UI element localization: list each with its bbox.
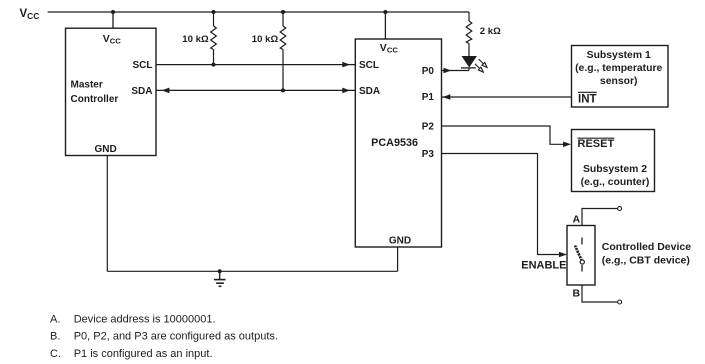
svg-text:C.: C. — [50, 348, 61, 360]
wire VCC rail — [48, 11, 469, 13]
PCA9536 pin P3 label — [422, 149, 435, 160]
wire terminal A — [582, 209, 618, 226]
svg-text:VCC: VCC — [103, 33, 122, 46]
ENABLE net label — [521, 260, 566, 272]
svg-text:Controller: Controller — [71, 94, 119, 105]
switch SW1 inside controlled device — [575, 238, 583, 272]
svg-text:Device address is 10000001.: Device address is 10000001. — [74, 313, 216, 325]
terminal A open circle — [618, 207, 622, 211]
arrowhead SDA into master — [162, 88, 170, 94]
subsystem 2 box — [572, 130, 655, 192]
arrowhead SCL into PCA9536 — [342, 62, 350, 68]
arrowhead P2 to RESET — [563, 142, 571, 148]
PCA9536 pin GND label — [389, 236, 411, 247]
PCA9536 pin SCL label — [359, 60, 379, 71]
svg-text:P0: P0 — [422, 66, 435, 77]
PCA9536 pin P1 label — [422, 92, 435, 103]
LED D1 — [461, 56, 477, 71]
svg-text:A.: A. — [50, 313, 60, 325]
subsystem 2 pin RESET label with overline — [578, 138, 615, 150]
svg-text:Subsystem 1: Subsystem 1 — [587, 50, 651, 61]
svg-text:SCL: SCL — [359, 60, 379, 71]
svg-text:P1: P1 — [422, 92, 435, 103]
svg-text:A: A — [573, 214, 581, 226]
wire SDA bus — [156, 89, 355, 91]
wire PCA9536 GND drop — [397, 247, 399, 271]
note A text — [50, 313, 216, 325]
resistor R2 value label 10 kOhm — [252, 34, 279, 45]
svg-text:GND: GND — [389, 236, 411, 247]
master controller box — [66, 28, 157, 155]
svg-text:2 kΩ: 2 kΩ — [480, 26, 501, 37]
wire SCL bus — [156, 64, 355, 66]
wire P3 to ENABLE — [442, 154, 566, 255]
svg-text:(e.g., CBT device): (e.g., CBT device) — [602, 254, 690, 266]
wire master GND drop — [106, 156, 108, 272]
arrowhead P3 to ENABLE — [559, 252, 567, 258]
svg-text:ENABLE: ENABLE — [521, 260, 566, 272]
arrowhead P0 output — [444, 68, 452, 74]
master controller pin SDA label — [131, 86, 152, 97]
LED light emission arrows — [475, 59, 487, 72]
svg-text:RESET: RESET — [578, 138, 615, 150]
wire ground bus — [107, 270, 397, 272]
junction at master VCC — [111, 10, 115, 14]
wire master VCC drop — [112, 12, 114, 29]
svg-text:SDA: SDA — [131, 86, 152, 97]
controlled device box (switch) — [567, 226, 595, 286]
master controller name label — [71, 80, 119, 106]
svg-text:B: B — [573, 288, 581, 300]
wire P2 to RESET — [442, 126, 570, 144]
switch pivot circle — [580, 260, 584, 264]
terminal B open circle — [618, 300, 622, 304]
PCA9536 pin VCC label — [380, 42, 399, 55]
junction R2 on SDA — [281, 88, 285, 92]
junction at resistor R2 top — [281, 10, 285, 14]
resistor R2 10k pull-up (SDA) — [280, 12, 286, 90]
PCA9536 box U1 — [355, 39, 441, 247]
svg-text:(e.g., counter): (e.g., counter) — [581, 177, 650, 188]
subsystem 1 pin INT label with overline — [578, 92, 597, 105]
node B label — [573, 288, 581, 300]
master controller pin GND label — [95, 144, 117, 155]
svg-text:PCA9536: PCA9536 — [371, 137, 418, 149]
svg-text:sensor): sensor) — [600, 76, 638, 87]
wire PCA9536 VCC drop — [384, 12, 386, 39]
svg-text:10 kΩ: 10 kΩ — [182, 34, 209, 45]
svg-text:P0, P2, and P3 are configured: P0, P2, and P3 are configured as outputs… — [74, 331, 278, 343]
junction R1 on SCL — [212, 63, 216, 67]
PCA9536 name label — [371, 137, 418, 149]
svg-text:Master: Master — [71, 80, 103, 91]
master controller pin SCL label — [133, 60, 153, 71]
svg-text:SCL: SCL — [133, 60, 153, 71]
junction at resistor R1 top — [212, 10, 216, 14]
junction at ground symbol — [218, 269, 222, 273]
note C text — [50, 348, 213, 360]
wire P0 to LED — [442, 70, 470, 72]
subsystem 1 box — [572, 46, 669, 108]
resistor R1 10k pull-up (SCL) — [211, 12, 217, 65]
svg-text:P2: P2 — [422, 121, 435, 132]
svg-text:(e.g., temperature: (e.g., temperature — [575, 63, 662, 74]
subsystem 2 name label — [581, 164, 650, 188]
node A label — [573, 214, 581, 226]
svg-text:SDA: SDA — [359, 86, 380, 97]
svg-text:P1 is configured as an input.: P1 is configured as an input. — [74, 348, 213, 360]
svg-text:Controlled Device: Controlled Device — [602, 241, 691, 253]
svg-text:Subsystem 2: Subsystem 2 — [583, 164, 647, 175]
master controller pin VCC label — [103, 33, 122, 46]
resistor R3 value label 2 kOhm — [480, 26, 501, 37]
svg-text:INT: INT — [578, 94, 597, 106]
PCA9536 pin P2 label — [422, 121, 435, 132]
junction at PCA9536 VCC — [383, 10, 387, 14]
ground symbol — [214, 271, 226, 286]
subsystem 1 name label — [575, 50, 662, 87]
node VCC supply label — [20, 8, 40, 21]
arrowhead SDA into PCA9536 — [342, 88, 350, 94]
wire terminal B — [582, 285, 618, 302]
svg-text:VCC: VCC — [20, 8, 40, 21]
svg-text:GND: GND — [95, 144, 117, 155]
resistor R3 2k LED series — [466, 12, 472, 56]
svg-text:P3: P3 — [422, 149, 435, 160]
controlled device name label — [602, 241, 691, 266]
wire P1 from Subsystem 1 INT — [442, 96, 572, 98]
note B text — [50, 331, 278, 343]
PCA9536 pin P0 label — [422, 66, 435, 77]
svg-text:10 kΩ: 10 kΩ — [252, 34, 279, 45]
svg-text:VCC: VCC — [380, 42, 399, 55]
resistor R1 value label 10 kOhm — [182, 34, 209, 45]
svg-text:B.: B. — [50, 331, 60, 343]
arrowhead P1 input — [443, 94, 451, 100]
PCA9536 pin SDA label — [359, 86, 380, 97]
